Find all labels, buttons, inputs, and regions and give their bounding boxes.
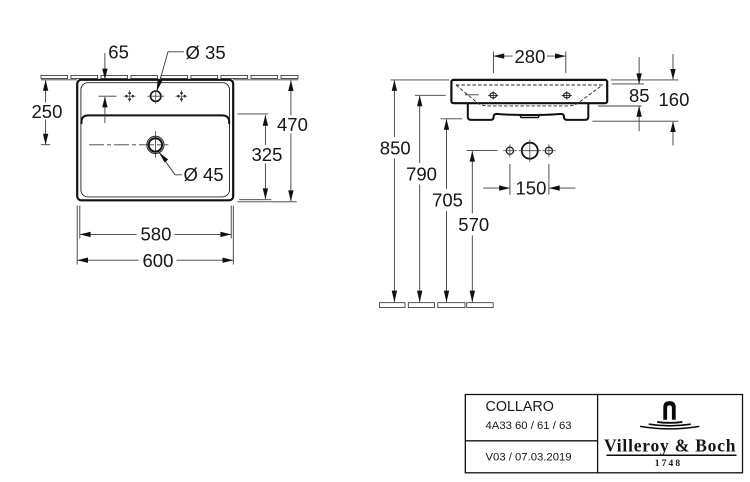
svg-text:COLLARO: COLLARO <box>486 399 554 415</box>
floor hatch bars <box>380 303 494 308</box>
dim 65 <box>99 53 117 123</box>
drain centerline <box>89 144 168 146</box>
bowl front edge <box>81 115 229 124</box>
svg-text:705: 705 <box>432 190 463 211</box>
svg-text:790: 790 <box>406 163 437 184</box>
dim 580 <box>80 206 231 239</box>
VB logo water line 3 <box>640 426 699 429</box>
VB logo arch <box>663 401 675 420</box>
supply hole right <box>542 144 555 157</box>
ext line feet bottom right <box>592 120 678 122</box>
VB logo underline <box>607 454 737 456</box>
svg-text:Villeroy & Boch: Villeroy & Boch <box>604 436 736 456</box>
leader D35 <box>157 52 184 92</box>
svg-text:150: 150 <box>516 178 547 199</box>
svg-text:160: 160 <box>659 89 690 110</box>
dim 150 <box>483 164 575 195</box>
svg-text:1748: 1748 <box>655 459 682 469</box>
svg-text:250: 250 <box>32 101 63 122</box>
dim 705 <box>441 118 463 120</box>
dim 85 <box>638 57 640 84</box>
ref line 790 inside body <box>465 94 479 96</box>
supply hole left <box>503 144 517 157</box>
drain hole center <box>519 140 541 163</box>
hidden bowl top dashed <box>456 84 603 86</box>
drain hole D45 <box>147 136 164 153</box>
VB logo water line 2 <box>649 424 691 426</box>
dim 570 <box>466 150 497 152</box>
svg-text:4A33 60 / 61 / 63: 4A33 60 / 61 / 63 <box>486 420 572 432</box>
svg-text:570: 570 <box>458 214 489 235</box>
tap hole circle D35 <box>147 90 164 104</box>
title block frame <box>465 395 742 473</box>
tap hole cross marker right <box>176 90 188 102</box>
title block horizontal divider <box>465 440 597 442</box>
VB logo water line 1 <box>657 421 682 424</box>
hidden bowl outline dashed <box>456 85 603 106</box>
leader D45 <box>159 152 182 175</box>
dim 790 <box>415 94 446 96</box>
wall line extension left <box>41 79 77 81</box>
svg-text:600: 600 <box>143 250 174 271</box>
dim 160 <box>672 54 674 79</box>
wall line extension right <box>233 79 298 81</box>
svg-text:Ø 35: Ø 35 <box>186 42 226 63</box>
svg-text:V03 / 07.03.2019: V03 / 07.03.2019 <box>486 451 572 463</box>
drain vertical centerline <box>154 131 156 158</box>
dim 600 <box>77 206 233 265</box>
ext line inner rim right <box>612 83 644 85</box>
dim 325 <box>238 113 269 115</box>
svg-text:580: 580 <box>141 223 172 244</box>
svg-text:65: 65 <box>108 42 129 63</box>
svg-text:Ø 45: Ø 45 <box>184 164 224 185</box>
ext line body bottom right <box>598 105 642 107</box>
basin body outline <box>451 80 607 103</box>
wall hatch bars top view <box>41 75 298 78</box>
underside profile <box>468 104 589 120</box>
dim 470 <box>290 80 292 201</box>
dim 280 <box>493 52 565 74</box>
svg-text:470: 470 <box>277 114 308 135</box>
basin inner rim line <box>81 83 230 197</box>
ext line top right <box>611 79 678 81</box>
tap hole cross marker left <box>124 90 136 102</box>
svg-text:280: 280 <box>515 46 546 67</box>
fixing hole left <box>488 91 498 99</box>
dim 850 <box>391 79 450 81</box>
svg-text:850: 850 <box>380 137 411 158</box>
svg-text:85: 85 <box>629 85 650 106</box>
basin outer rect <box>77 80 233 201</box>
underside center tab <box>520 115 540 117</box>
dim 250 <box>41 80 50 145</box>
svg-text:325: 325 <box>252 144 283 165</box>
title block vertical divider <box>597 395 599 473</box>
fixing hole right <box>562 91 572 99</box>
